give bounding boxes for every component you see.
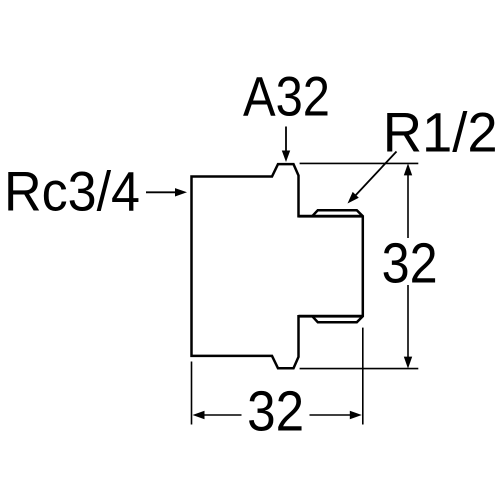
- thread root line bottom: [299, 315, 363, 318]
- horizontal dimension arrowhead left: [193, 411, 205, 419]
- svg-text:Rc3/4: Rc3/4: [4, 160, 140, 223]
- horizontal dimension line left segment: [203, 414, 242, 416]
- A32 leader line: [285, 127, 287, 153]
- A32 arrowhead: [282, 151, 290, 163]
- R1/2 leader line: [354, 152, 397, 198]
- svg-text:32: 32: [382, 232, 438, 296]
- vertical dimension line upper segment: [407, 174, 409, 238]
- extension line top right: [300, 162, 419, 164]
- extension line bottom right vertical: [362, 328, 364, 425]
- svg-text:A32: A32: [243, 65, 330, 128]
- R1/2 arrowhead: [348, 192, 359, 204]
- fitting body outline (bushing cross-section): [192, 164, 363, 368]
- svg-text:32: 32: [247, 379, 304, 443]
- horizontal dimension arrowhead right: [350, 411, 362, 419]
- svg-text:R1/2: R1/2: [383, 101, 498, 164]
- vertical dimension arrowhead up: [404, 163, 412, 175]
- horizontal dimension line right segment: [310, 414, 351, 416]
- extension line bottom left vertical: [191, 362, 193, 425]
- extension line bottom right: [300, 368, 419, 370]
- Rc3/4 leader line: [146, 191, 177, 193]
- Rc3/4 arrowhead: [175, 188, 187, 196]
- vertical dimension arrowhead down: [404, 357, 412, 369]
- thread root line top: [299, 215, 363, 218]
- vertical dimension line lower segment: [407, 285, 409, 358]
